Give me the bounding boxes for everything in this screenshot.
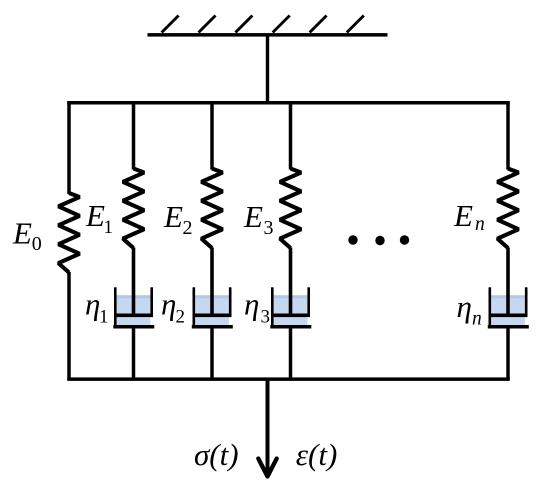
svg-text:σ(t): σ(t) xyxy=(194,437,239,472)
svg-text:E: E xyxy=(163,199,183,234)
svg-text:η: η xyxy=(161,287,176,322)
svg-text:3: 3 xyxy=(264,217,274,239)
svg-text:E: E xyxy=(85,198,105,233)
svg-text:E: E xyxy=(243,199,263,234)
svg-text:η: η xyxy=(457,289,472,324)
svg-text:1: 1 xyxy=(99,307,109,328)
svg-text:η: η xyxy=(244,287,259,322)
svg-text:0: 0 xyxy=(32,233,42,255)
svg-text:n: n xyxy=(472,309,482,330)
svg-text:2: 2 xyxy=(176,307,186,328)
svg-text:2: 2 xyxy=(183,217,193,239)
svg-text:E: E xyxy=(453,198,473,233)
svg-text:E: E xyxy=(12,216,32,251)
svg-text:1: 1 xyxy=(104,217,114,238)
svg-text:n: n xyxy=(475,214,485,235)
svg-text:3: 3 xyxy=(261,307,271,328)
svg-text:ε(t): ε(t) xyxy=(296,437,337,472)
